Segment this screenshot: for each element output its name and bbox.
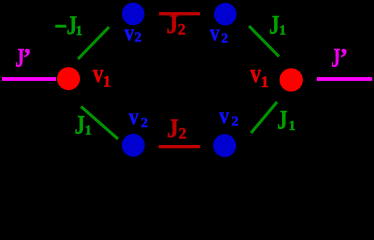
bond J2 bottom (dark red horizontal line) (159, 145, 201, 148)
label J1 top-right (269, 12, 286, 41)
svg-text:2: 2 (179, 125, 187, 142)
svg-text:1: 1 (289, 119, 296, 134)
svg-text:v: v (124, 18, 134, 45)
bond J' right (magenta horizontal line) (317, 77, 372, 81)
svg-text:’: ’ (339, 44, 348, 73)
svg-text:2: 2 (141, 116, 148, 131)
label -J1 top-left (56, 12, 83, 41)
svg-text:1: 1 (261, 74, 269, 91)
site v1 right (red circle) (280, 68, 303, 91)
svg-text:v: v (129, 103, 139, 130)
svg-text:v: v (250, 60, 261, 88)
svg-text:v: v (93, 60, 104, 88)
svg-text:1: 1 (85, 124, 92, 139)
site v2 bottom-right (blue circle) (213, 134, 236, 157)
site v2 top-left (blue circle) (122, 3, 145, 26)
svg-text:v: v (210, 19, 220, 46)
svg-text:J: J (166, 11, 178, 39)
svg-text:1: 1 (76, 24, 83, 39)
svg-text:2: 2 (232, 114, 239, 129)
label v2 top-left (124, 18, 141, 45)
bond J1 top-right (green diagonal) (249, 26, 279, 57)
svg-text:2: 2 (221, 32, 228, 47)
label J2 bottom (167, 115, 187, 143)
svg-text:J: J (75, 112, 86, 141)
bond J1 bottom-right (green diagonal) (251, 102, 277, 133)
label v2 bottom-right (219, 102, 238, 130)
label v2 bottom-left (129, 103, 148, 132)
label J' left (15, 43, 31, 72)
label J2 top (166, 11, 185, 39)
svg-text:1: 1 (279, 24, 286, 39)
svg-text:J: J (167, 115, 179, 143)
label J' right (331, 43, 348, 72)
site v2 bottom-left (blue circle) (122, 134, 145, 157)
label v2 top-right (210, 19, 228, 47)
site v1 left (red circle) (57, 67, 80, 90)
site v2 top-right (blue circle) (214, 3, 237, 26)
bond J1 bottom-left (green diagonal) (81, 107, 118, 140)
bond J2 top (dark red horizontal line) (159, 12, 200, 15)
svg-text:1: 1 (103, 73, 111, 90)
bond J' left (magenta horizontal line) (2, 77, 56, 81)
svg-text:2: 2 (135, 31, 142, 46)
svg-text:’: ’ (23, 44, 32, 73)
svg-text:v: v (219, 102, 229, 129)
label v1 right (250, 60, 269, 91)
label J1 bottom-left (75, 112, 92, 141)
svg-text:2: 2 (178, 22, 186, 39)
label v1 left (93, 60, 111, 90)
label J1 bottom-right (277, 107, 296, 136)
svg-text:J: J (277, 107, 288, 136)
bond -J1 top-left (green diagonal) (78, 27, 109, 59)
